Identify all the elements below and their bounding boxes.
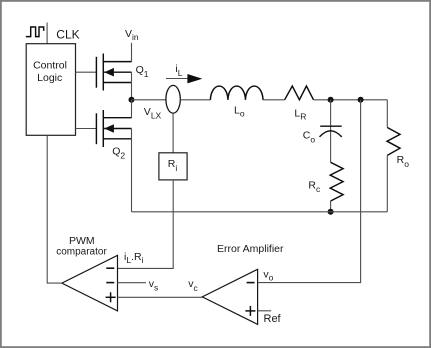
wire gate drive Q1 — [76, 71, 97, 73]
svg-text:Error Amplifier: Error Amplifier — [217, 243, 284, 255]
op-amp error amplifier — [202, 269, 257, 324]
wire node to Co — [330, 100, 332, 163]
wire Q1 source to node VLX — [131, 72, 133, 100]
svg-text:PWM: PWM — [69, 235, 95, 247]
clock waveform symbol — [26, 27, 44, 37]
svg-text:Vin: Vin — [125, 28, 139, 42]
wire PWM output to control logic — [47, 135, 62, 283]
wire node VLX to current sensor — [132, 99, 167, 101]
wire Ro to ground rail — [386, 155, 388, 211]
svg-text:vo: vo — [263, 268, 273, 282]
node vo junction dot — [358, 97, 364, 103]
wire gate drive Q2 — [76, 128, 97, 130]
wire inductor to LR — [263, 99, 285, 101]
resistor LR (inductor ESR) — [285, 86, 314, 100]
svg-text:vs: vs — [149, 278, 159, 293]
node ground junction dot — [328, 209, 334, 215]
svg-text:Ref: Ref — [264, 313, 282, 325]
minus sign middle input — [106, 282, 114, 284]
wire sensor to Ri — [172, 113, 174, 153]
wire top rail to Ro — [386, 100, 388, 128]
transistor Q1 — [96, 54, 131, 91]
wire node to Q2 drain — [131, 100, 133, 118]
resistor Ri block — [159, 153, 187, 180]
plus sign error amp non-inverting input — [245, 306, 255, 316]
wire vo feedback from output node — [258, 100, 361, 283]
node output junction dot at Co — [328, 97, 334, 103]
svg-text:comparator: comparator — [56, 247, 107, 258]
svg-text:Ro: Ro — [397, 154, 410, 169]
svg-text:VLX: VLX — [144, 106, 162, 121]
minus sign top input — [106, 267, 114, 269]
resistor Rc — [330, 162, 343, 201]
wire Q2 source down to ground rail — [131, 129, 133, 212]
svg-text:vc: vc — [188, 278, 198, 293]
svg-text:Q2: Q2 — [112, 146, 125, 161]
svg-text:LR: LR — [294, 107, 306, 121]
plus sign bottom input — [106, 292, 116, 302]
wire Vin to Q1 drain — [131, 43, 133, 62]
wire vc error amp output to PWM + input — [118, 296, 203, 298]
wire vs slope input stub — [118, 282, 147, 284]
svg-text:Q1: Q1 — [136, 64, 149, 79]
capacitor Co — [320, 126, 342, 137]
wire Ri to PWM comparator inverting input — [118, 180, 174, 269]
inductor Lo — [210, 86, 263, 100]
svg-text:Control: Control — [33, 59, 67, 71]
transistor Q2 — [96, 110, 131, 147]
svg-text:Rc: Rc — [308, 180, 321, 194]
control logic block U1 — [26, 44, 75, 136]
resistor Ro — [387, 128, 400, 156]
svg-text:Co: Co — [303, 129, 316, 144]
wire Ref input stub — [258, 310, 272, 312]
node VLX junction dot — [129, 97, 135, 103]
svg-text:iL: iL — [175, 63, 182, 78]
svg-text:Logic: Logic — [37, 72, 62, 84]
minus sign error amp inverting input — [247, 282, 255, 284]
svg-text:Lo: Lo — [234, 104, 245, 118]
wire sensor to inductor — [180, 99, 210, 101]
wire CLK input — [46, 23, 48, 44]
arrow iL direction — [166, 78, 192, 80]
svg-text:iL.Ri: iL.Ri — [124, 251, 144, 265]
wire LR to output node — [314, 99, 388, 101]
op-amp PWM comparator — [62, 255, 118, 311]
current sensor ellipse — [166, 85, 180, 113]
svg-text:CLK: CLK — [56, 28, 79, 42]
wire Rc to ground rail — [330, 201, 332, 212]
wire ground rail — [132, 211, 388, 213]
